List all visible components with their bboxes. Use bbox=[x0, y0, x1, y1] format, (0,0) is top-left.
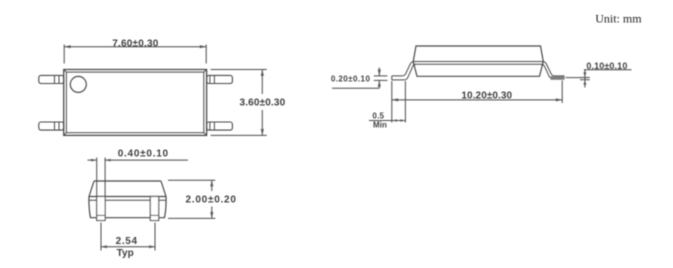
dimension 0.10±0.10 vertical line bbox=[584, 70, 586, 88]
pin 2 (bottom-left) bbox=[39, 122, 64, 130]
svg-text:7.60±0.30: 7.60±0.30 bbox=[112, 38, 158, 49]
arrow top of 3.60 bbox=[261, 70, 264, 76]
svg-text:2.00±0.20: 2.00±0.20 bbox=[186, 195, 237, 206]
dimension 0.5 line bbox=[369, 120, 405, 122]
svg-text:10.20±0.30: 10.20±0.30 bbox=[461, 91, 512, 102]
dimension 10.20±0.30 extension line right bbox=[561, 81, 563, 104]
dimension 7.60±0.30 extension line right bbox=[205, 45, 207, 64]
end view parting line upper bbox=[89, 196, 166, 198]
arrow down to 0.10 bbox=[583, 72, 586, 77]
dimension 0.5 Min extension line right bbox=[404, 81, 406, 123]
arrow left of 10.20 bbox=[392, 98, 398, 101]
arrow up to 0.10 bbox=[583, 80, 586, 85]
dimension 0.20±0.10 tick top bbox=[374, 75, 388, 77]
arrow pointing left at 0.5 bbox=[392, 119, 397, 122]
end view parting line lower bbox=[89, 199, 166, 201]
dimension 2.54 extension line right bbox=[154, 223, 156, 251]
pin 1 (top-left) bbox=[39, 75, 64, 83]
svg-text:Unit: mm: Unit: mm bbox=[595, 11, 642, 25]
dimension 0.40±0.10 extension line right bbox=[104, 158, 106, 197]
tick top of 0.10 bbox=[580, 77, 590, 79]
dimension 2.54 line bbox=[101, 246, 155, 248]
dimension 7.60±0.30 extension line left bbox=[63, 45, 65, 64]
top view corner chamfer marks bbox=[64, 70, 207, 136]
dimension 3.60±0.30 line lower segment bbox=[261, 110, 263, 135]
dimension 3.60±0.30 line upper segment bbox=[261, 70, 263, 95]
leg 1 (left, end view) bbox=[97, 197, 105, 221]
svg-text:0.5: 0.5 bbox=[372, 111, 384, 120]
arrow right of 10.20 bbox=[556, 98, 562, 101]
svg-text:Typ: Typ bbox=[117, 248, 134, 259]
svg-text:Min: Min bbox=[373, 120, 387, 129]
arrow right of 7.60 bbox=[200, 45, 206, 48]
side view parting line lower bbox=[413, 63, 543, 65]
leader line 0.20 bbox=[332, 87, 379, 89]
top view body inner outline bbox=[66, 72, 203, 133]
left lead (side view) outline bbox=[392, 62, 414, 76]
side view body outline bbox=[413, 46, 543, 76]
svg-text:0.20±0.10: 0.20±0.10 bbox=[331, 75, 371, 84]
dimension 0.10±0.10 leader line bbox=[584, 69, 632, 71]
svg-text:0.10±0.10: 0.10±0.10 bbox=[586, 61, 627, 71]
side view parting line upper bbox=[413, 61, 543, 63]
dimension 7.60±0.30 line bbox=[64, 46, 206, 48]
end view body sides and bottom bbox=[89, 197, 166, 218]
dimension 10.20±0.30 extension line left bbox=[391, 81, 393, 123]
arrow pointing left at 0.40 right line bbox=[105, 159, 111, 162]
pin 4 (top-right) bbox=[207, 75, 233, 83]
svg-text:0.40±0.10: 0.40±0.10 bbox=[118, 149, 169, 160]
arrow left of 7.60 bbox=[64, 45, 70, 48]
arrow up to 0.20 bottom bbox=[378, 80, 380, 88]
dimension 3.60±0.30 extension line bottom bbox=[211, 134, 267, 136]
right lead foot solder bar bbox=[551, 76, 565, 80]
arrow left of 2.54 bbox=[101, 245, 107, 248]
dimension 0.20±0.10 tick bottom bbox=[374, 79, 388, 81]
tick bottom of 0.10 bbox=[580, 79, 590, 81]
dimension 3.60±0.30 extension line top bbox=[211, 69, 267, 71]
dimension 2.00±0.20 line upper segment bbox=[211, 180, 213, 191]
dimension 0.40±0.10 left pointer line bbox=[88, 159, 97, 161]
dimension 2.54 extension line left bbox=[100, 223, 102, 251]
arrow right of 2.54 bbox=[149, 245, 155, 248]
leg 2 (right, end view) bbox=[150, 197, 158, 221]
dimension 0.40±0.10 right pointer line bbox=[105, 159, 188, 161]
dimension 0.40±0.10 extension line left bbox=[96, 158, 98, 197]
end view body top bbox=[89, 181, 166, 197]
arrow pointing right at 0.40 left line bbox=[91, 159, 97, 162]
top view body outer outline bbox=[64, 70, 207, 136]
arrow pointing right at 0.5 bbox=[400, 119, 405, 122]
svg-text:3.60±0.30: 3.60±0.30 bbox=[240, 98, 286, 109]
dimension 10.20±0.30 line bbox=[392, 99, 562, 101]
pin 1 mark circle bbox=[70, 76, 86, 92]
arrow bottom of 3.60 bbox=[261, 129, 264, 135]
dimension 2.00±0.20 line lower segment bbox=[211, 207, 213, 219]
arrow down to 0.20 top bbox=[378, 68, 380, 76]
pin 3 (bottom-right) bbox=[207, 122, 233, 130]
right lead tip datum line bbox=[566, 77, 582, 79]
svg-text:2.54: 2.54 bbox=[116, 236, 138, 247]
dimension 2.00±0.20 extension line bottom bbox=[168, 217, 215, 219]
arrow top of 2.00 bbox=[210, 180, 213, 186]
arrow bottom of 2.00 bbox=[210, 212, 213, 218]
dimension 2.00±0.20 extension line top bbox=[168, 179, 215, 181]
right lead (side view) outline bbox=[543, 62, 565, 76]
